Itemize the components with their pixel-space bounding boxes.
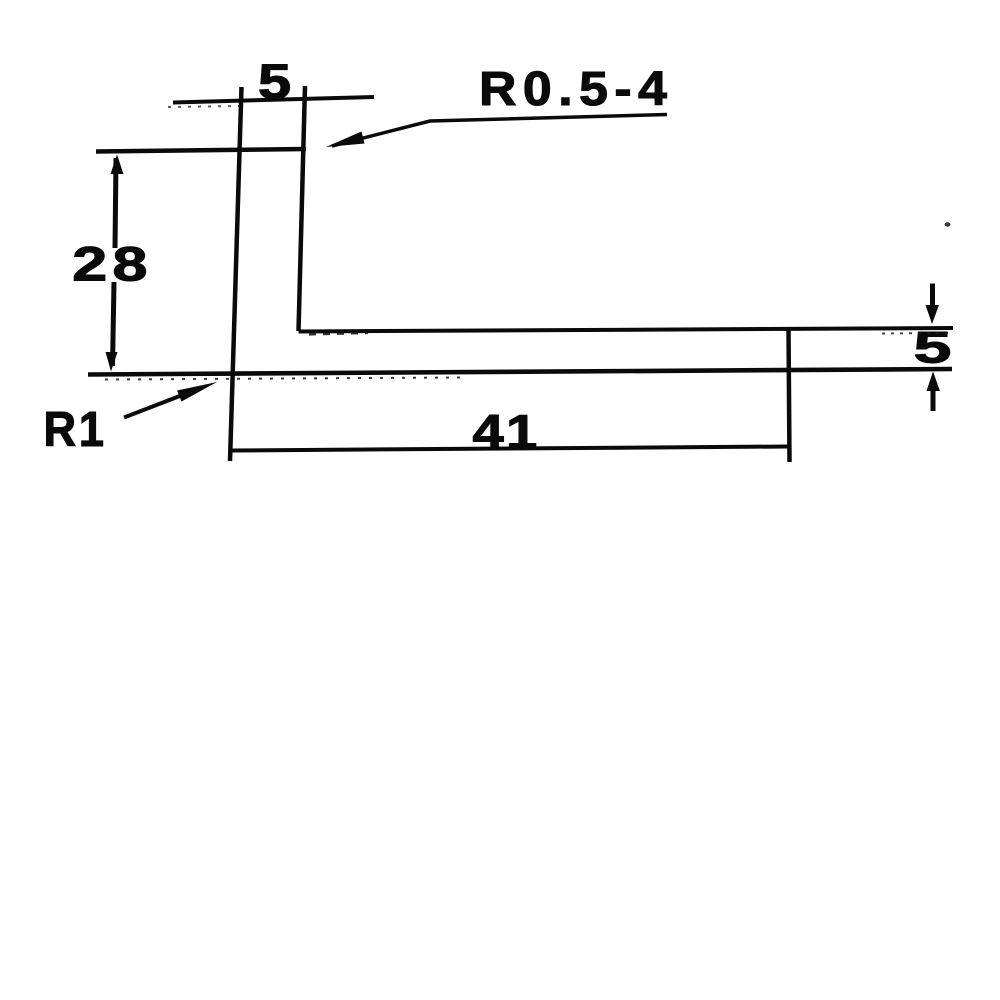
arrowhead 28 top: [111, 155, 124, 175]
left edge of vertical leg (extension line for 5 and 41): [230, 87, 242, 461]
right 5 dimension: lower arrow shaft: [931, 387, 936, 411]
right extension line for 41: [789, 328, 790, 462]
dimension line 41: [231, 447, 789, 451]
scan fringe under right top edge: [882, 332, 950, 335]
svg-text:5: 5: [258, 54, 291, 109]
right 5 dimension: upper arrow shaft: [930, 284, 935, 311]
leader line for R0.5-4: [332, 115, 667, 147]
leader line for R1: [124, 394, 185, 418]
svg-text:5: 5: [914, 323, 952, 372]
scan speck: [945, 222, 951, 226]
top edge of horizontal leg (extension for right 5): [299, 328, 954, 332]
arrowhead 28 bottom: [106, 352, 118, 372]
svg-text:41: 41: [472, 406, 539, 459]
scan fringe under bottom edge: [105, 378, 460, 380]
bottom edge of profile (extension for 28 and right 5): [88, 369, 952, 375]
dimension line 28 (vertical, upper segment): [115, 158, 116, 248]
scan fringe under top dimension line: [168, 106, 240, 107]
svg-text:R1: R1: [44, 401, 107, 456]
right edge of vertical leg (extension line for 5): [299, 86, 306, 331]
top edge of vertical leg (extension line for 28): [96, 149, 306, 152]
svg-text:R0.5-4: R0.5-4: [479, 62, 673, 116]
svg-text:28: 28: [72, 237, 152, 291]
arrowhead R1 leader: [177, 382, 217, 402]
scan fringe under inner corner edge: [309, 333, 368, 335]
right 5 dimension: upper arrowhead (points down): [926, 305, 940, 324]
dimension line for top width 5: [173, 97, 374, 103]
dimension line 28 (vertical, lower segment): [113, 282, 115, 366]
arrowhead R0.5-4 leader: [326, 132, 365, 148]
right 5 dimension: lower arrowhead (points up): [927, 372, 941, 392]
